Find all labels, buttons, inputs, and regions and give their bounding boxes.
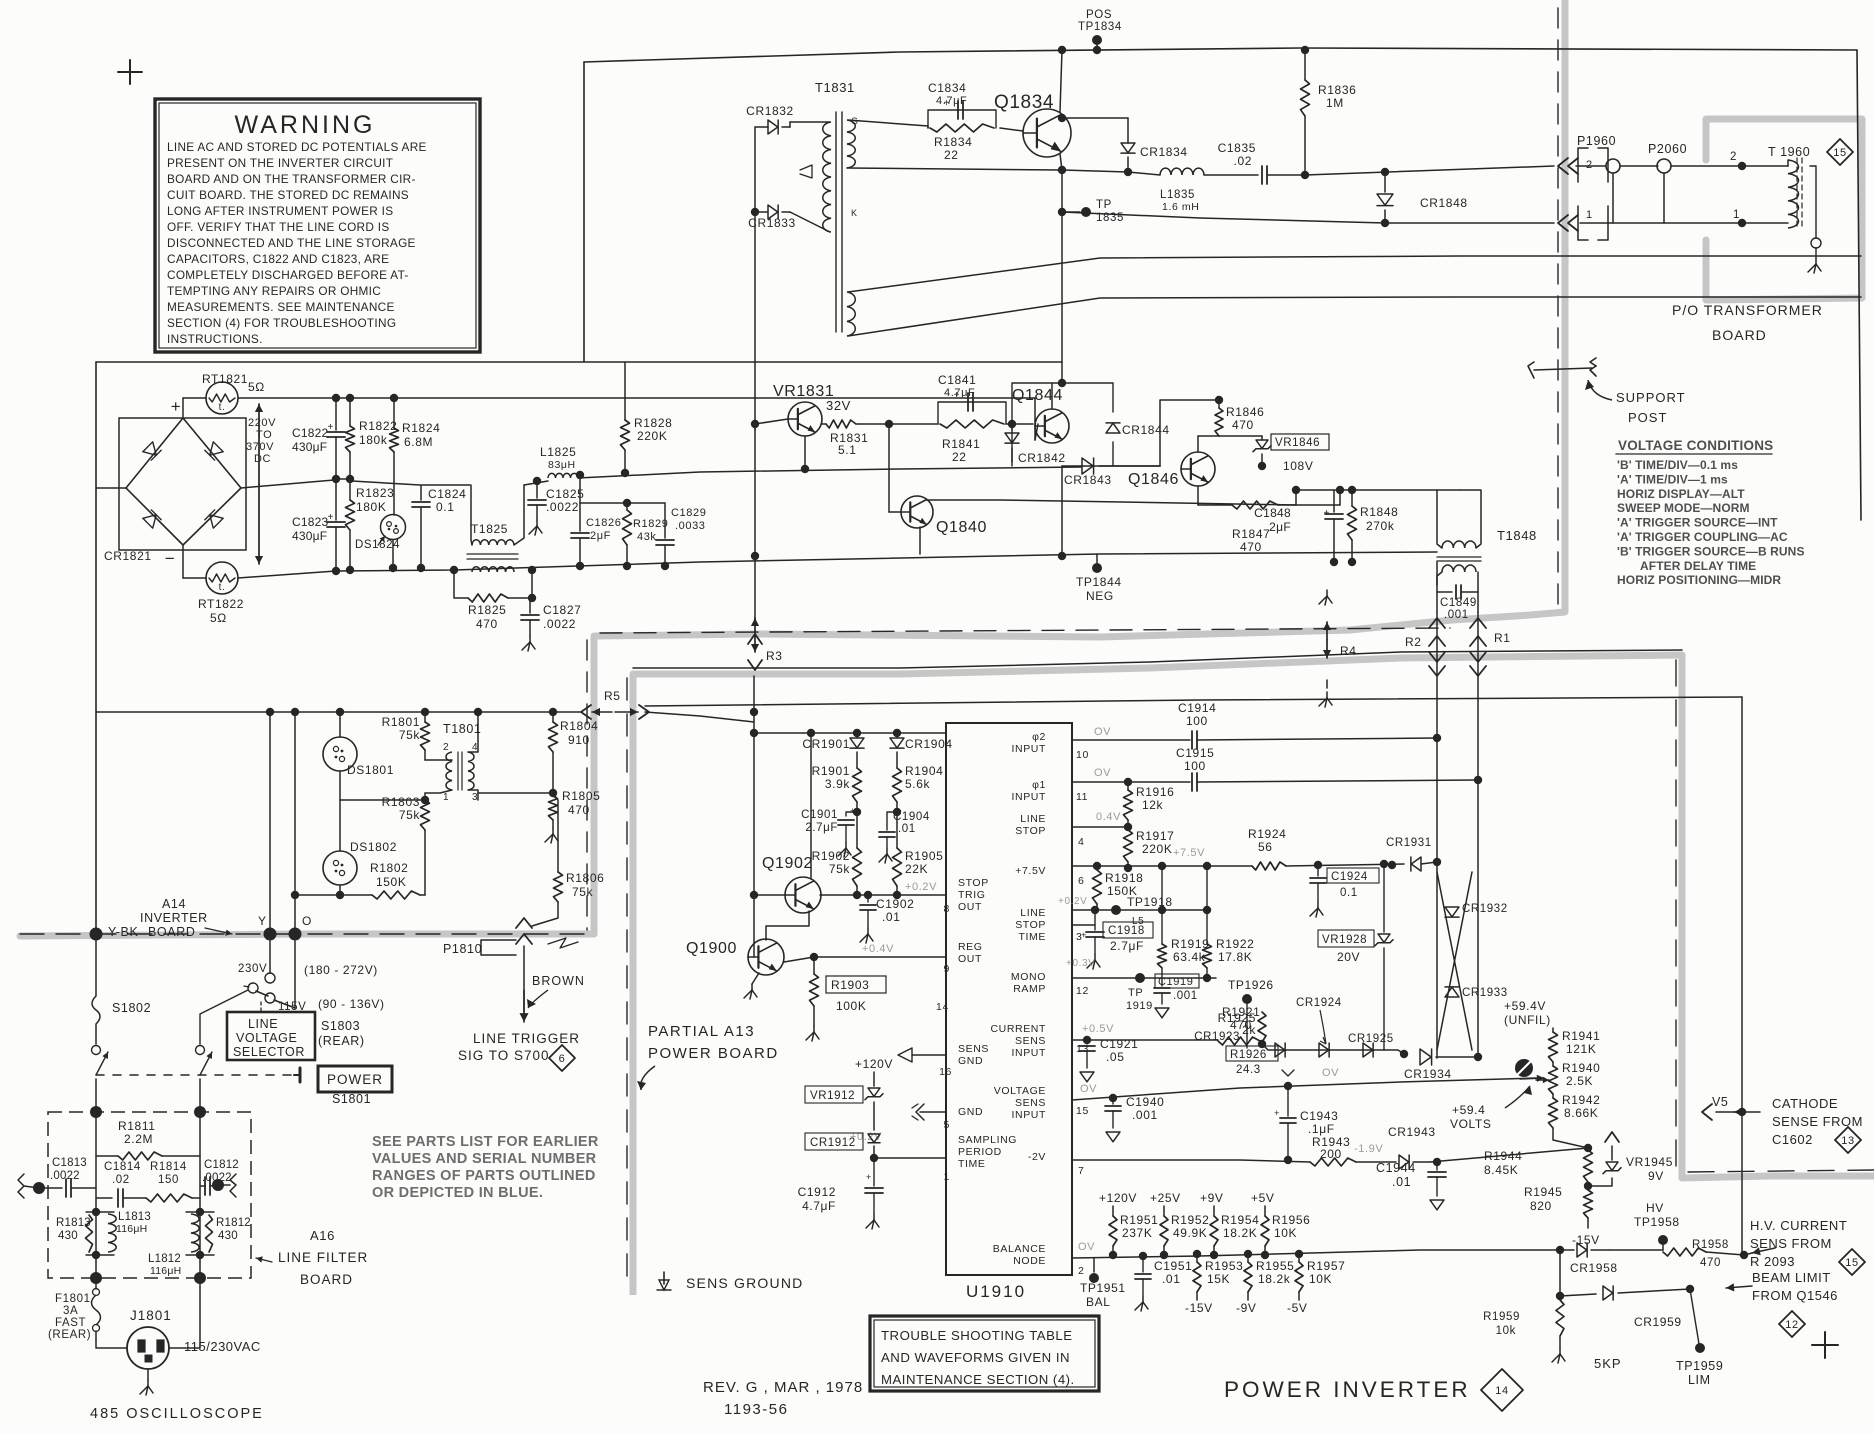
svg-text:BAL: BAL <box>1086 1295 1110 1309</box>
svg-text:OUT: OUT <box>958 901 982 913</box>
svg-text:CR1958: CR1958 <box>1570 1261 1618 1275</box>
svg-text:24.3: 24.3 <box>1236 1064 1261 1076</box>
svg-text:LINE AC AND STORED DC POTENTIA: LINE AC AND STORED DC POTENTIALS ARE <box>167 140 427 154</box>
svg-text:R1802: R1802 <box>370 861 408 875</box>
svg-text:BOARD: BOARD <box>148 925 195 939</box>
svg-text:2μF: 2μF <box>1269 520 1291 534</box>
svg-text:Q1840: Q1840 <box>936 519 987 536</box>
svg-text:F1801: F1801 <box>55 1293 91 1305</box>
svg-text:CR1934: CR1934 <box>1404 1067 1452 1081</box>
svg-text:OFF. VERIFY THAT THE LINE COR: OFF. VERIFY THAT THE LINE CORD IS <box>167 220 390 234</box>
svg-text:C1904: C1904 <box>893 811 930 823</box>
svg-text:5.1: 5.1 <box>838 443 856 457</box>
svg-text:SENS GROUND: SENS GROUND <box>686 1275 803 1291</box>
svg-text:COMPLETELY DISCHARGED BEFORE A: COMPLETELY DISCHARGED BEFORE AT- <box>167 268 409 282</box>
svg-text:-9V: -9V <box>1236 1301 1256 1315</box>
svg-text:R3: R3 <box>766 649 783 663</box>
svg-text:.001: .001 <box>1132 1108 1158 1122</box>
svg-text:R1801: R1801 <box>382 715 420 729</box>
svg-text:TROUBLE SHOOTING TABLE: TROUBLE SHOOTING TABLE <box>881 1328 1073 1343</box>
svg-text:R1841: R1841 <box>942 437 980 451</box>
svg-text:C1924: C1924 <box>1331 871 1368 883</box>
svg-text:0.1: 0.1 <box>436 500 454 514</box>
svg-text:150K: 150K <box>376 875 406 889</box>
svg-text:C1914: C1914 <box>1178 701 1216 715</box>
svg-text:VOLTAGE: VOLTAGE <box>994 1085 1046 1097</box>
svg-text:C1829: C1829 <box>671 507 706 519</box>
svg-text:VOLTAGE CONDITIONS: VOLTAGE CONDITIONS <box>1618 438 1773 453</box>
svg-text:+0.3V: +0.3V <box>1066 958 1095 969</box>
svg-text:R1944: R1944 <box>1484 1149 1522 1163</box>
svg-text:'B' TRIGGER SOURCE—B RUNS: 'B' TRIGGER SOURCE—B RUNS <box>1617 544 1805 558</box>
svg-text:+59.4V: +59.4V <box>1504 999 1546 1013</box>
svg-text:R1904: R1904 <box>905 764 943 778</box>
svg-text:T1801: T1801 <box>443 722 481 736</box>
svg-text:TP1951: TP1951 <box>1080 1281 1126 1295</box>
svg-text:POWER: POWER <box>327 1072 383 1087</box>
svg-text:470: 470 <box>1700 1257 1721 1269</box>
svg-text:MONO: MONO <box>1011 971 1046 983</box>
svg-text:CR1924: CR1924 <box>1296 997 1342 1009</box>
svg-text:10k: 10k <box>1496 1325 1516 1337</box>
svg-text:C1901: C1901 <box>801 809 838 821</box>
svg-text:83μH: 83μH <box>548 459 576 471</box>
svg-text:t.: t. <box>219 582 226 593</box>
svg-text:NODE: NODE <box>1013 1255 1046 1267</box>
svg-text:+7.5V: +7.5V <box>1173 847 1205 859</box>
svg-text:5Ω: 5Ω <box>248 380 265 394</box>
svg-text:Q1834: Q1834 <box>994 92 1054 113</box>
svg-text:220K: 220K <box>1142 842 1172 856</box>
svg-text:R1901: R1901 <box>812 764 850 778</box>
svg-text:AFTER DELAY TIME: AFTER DELAY TIME <box>1640 559 1756 573</box>
svg-text:220V: 220V <box>248 417 276 429</box>
svg-text:R1924: R1924 <box>1248 827 1286 841</box>
svg-text:430μF: 430μF <box>292 529 327 543</box>
svg-text:OV: OV <box>1078 1241 1095 1253</box>
svg-text:BOARD: BOARD <box>1712 327 1767 343</box>
svg-text:O: O <box>302 914 312 928</box>
svg-text:L1835: L1835 <box>1160 189 1195 201</box>
svg-text:.001: .001 <box>1444 609 1469 621</box>
svg-text:CR1932: CR1932 <box>1462 903 1508 915</box>
svg-text:.0033: .0033 <box>675 520 706 532</box>
svg-text:1: 1 <box>443 792 449 803</box>
svg-text:R1814: R1814 <box>150 1161 187 1173</box>
svg-text:(REAR): (REAR) <box>318 1034 365 1048</box>
svg-text:.0022: .0022 <box>50 1170 80 1182</box>
svg-text:OV: OV <box>1080 1083 1097 1095</box>
svg-text:1: 1 <box>944 1171 950 1183</box>
svg-text:R1829: R1829 <box>633 518 668 530</box>
svg-text:C1825: C1825 <box>546 487 584 501</box>
svg-text:R1917: R1917 <box>1136 829 1174 843</box>
svg-text:11: 11 <box>1076 791 1088 803</box>
svg-text:POST: POST <box>1628 410 1667 425</box>
svg-text:100: 100 <box>1186 714 1208 728</box>
svg-text:'B' TIME/DIV—0.1 ms: 'B' TIME/DIV—0.1 ms <box>1617 458 1738 472</box>
svg-text:10: 10 <box>1076 749 1089 761</box>
svg-text:MEASUREMENTS. SEE MAINTENANCE: MEASUREMENTS. SEE MAINTENANCE <box>167 300 395 314</box>
svg-text:VOLTAGE: VOLTAGE <box>236 1031 297 1045</box>
svg-text:1.6 mH: 1.6 mH <box>1162 201 1199 213</box>
svg-text:SECTION (4) FOR TROUBLESHOOTIN: SECTION (4) FOR TROUBLESHOOTING <box>167 316 396 330</box>
svg-text:1919: 1919 <box>1126 1000 1153 1012</box>
svg-text:T 1960: T 1960 <box>1768 145 1810 159</box>
svg-text:2: 2 <box>1730 151 1737 163</box>
svg-text:15: 15 <box>1845 1257 1858 1269</box>
svg-text:R4: R4 <box>1340 644 1357 658</box>
svg-text:CR1923: CR1923 <box>1194 1031 1240 1043</box>
svg-text:L1812: L1812 <box>148 1253 181 1265</box>
svg-text:REV. G , MAR , 1978: REV. G , MAR , 1978 <box>703 1379 863 1396</box>
svg-text:CR1844: CR1844 <box>1122 423 1170 437</box>
svg-text:+9V: +9V <box>1200 1191 1224 1205</box>
svg-text:12: 12 <box>1076 985 1089 997</box>
svg-text:1: 1 <box>1586 209 1593 221</box>
svg-text:VR1945: VR1945 <box>1626 1155 1673 1169</box>
svg-text:BOARD AND ON THE TRANSFORMER C: BOARD AND ON THE TRANSFORMER CIR- <box>167 172 416 186</box>
svg-text:POWER INVERTER: POWER INVERTER <box>1224 1377 1471 1402</box>
svg-text:Y: Y <box>258 914 267 928</box>
svg-text:OR DEPICTED IN BLUE.: OR DEPICTED IN BLUE. <box>372 1185 543 1201</box>
svg-text:RANGES OF PARTS OUTLINED: RANGES OF PARTS OUTLINED <box>372 1168 596 1184</box>
svg-text:1M: 1M <box>1326 96 1344 110</box>
svg-text:RT1822: RT1822 <box>198 597 244 611</box>
svg-text:TP1844: TP1844 <box>1076 575 1122 589</box>
svg-text:P/O TRANSFORMER: P/O TRANSFORMER <box>1672 302 1823 318</box>
svg-text:7: 7 <box>1078 1165 1084 1177</box>
svg-text:14: 14 <box>1495 1385 1508 1397</box>
svg-text:STOP: STOP <box>1015 825 1046 837</box>
svg-text:485 OSCILLOSCOPE: 485 OSCILLOSCOPE <box>90 1406 264 1422</box>
svg-text:R1812: R1812 <box>216 1217 251 1229</box>
svg-text:CUIT BOARD. THE STORED DC REMA: CUIT BOARD. THE STORED DC REMAINS <box>167 188 409 202</box>
svg-text:R1958: R1958 <box>1692 1239 1729 1251</box>
svg-text:180k: 180k <box>359 433 388 447</box>
svg-text:V5: V5 <box>1712 1095 1729 1109</box>
svg-text:.01: .01 <box>1162 1272 1180 1286</box>
svg-text:+5V: +5V <box>1251 1191 1275 1205</box>
svg-text:R1945: R1945 <box>1524 1185 1562 1199</box>
svg-text:470: 470 <box>1240 540 1262 554</box>
svg-text:3.9k: 3.9k <box>825 777 850 791</box>
svg-text:R1823: R1823 <box>356 486 394 500</box>
svg-text:470: 470 <box>568 803 590 817</box>
svg-text:TP1918: TP1918 <box>1127 895 1173 909</box>
svg-text:+0.2V: +0.2V <box>905 881 937 893</box>
svg-text:.02: .02 <box>112 1174 130 1186</box>
svg-text:INPUT: INPUT <box>1012 1109 1047 1121</box>
svg-text:RAMP: RAMP <box>1013 983 1046 995</box>
svg-text:TIME: TIME <box>958 1158 985 1170</box>
svg-text:TEMPTING ANY REPAIRS OR OHMIC: TEMPTING ANY REPAIRS OR OHMIC <box>167 284 381 298</box>
svg-text:1193-56: 1193-56 <box>724 1401 788 1418</box>
svg-text:C1918: C1918 <box>1108 925 1145 937</box>
svg-text:MAINTENANCE SECTION (4).: MAINTENANCE SECTION (4). <box>881 1372 1075 1387</box>
svg-text:WARNING: WARNING <box>235 111 376 139</box>
svg-text:R1828: R1828 <box>634 416 672 430</box>
svg-text:R1941: R1941 <box>1562 1029 1600 1043</box>
svg-text:C1835: C1835 <box>1218 141 1256 155</box>
svg-text:CATHODE: CATHODE <box>1772 1096 1838 1111</box>
svg-text:+7.5V: +7.5V <box>1015 865 1046 877</box>
svg-text:φ1: φ1 <box>1032 779 1046 791</box>
svg-text:J1801: J1801 <box>130 1308 172 1323</box>
svg-text:R1813: R1813 <box>56 1217 91 1229</box>
svg-text:+: + <box>328 422 334 433</box>
svg-text:+: + <box>850 806 856 816</box>
svg-text:14: 14 <box>936 1001 949 1013</box>
svg-text:+: + <box>1274 1108 1280 1118</box>
svg-text:R1942: R1942 <box>1562 1093 1600 1107</box>
svg-text:49.9K: 49.9K <box>1173 1226 1207 1240</box>
svg-text:L1825: L1825 <box>540 445 576 459</box>
svg-text:INPUT: INPUT <box>1012 791 1047 803</box>
svg-text:INPUT: INPUT <box>1012 1047 1047 1059</box>
svg-text:32V: 32V <box>826 398 851 413</box>
svg-text:+25V: +25V <box>1150 1191 1181 1205</box>
svg-text:C1902: C1902 <box>876 897 914 911</box>
svg-text:R 2093: R 2093 <box>1750 1254 1795 1269</box>
svg-text:C1943: C1943 <box>1300 1109 1338 1123</box>
svg-text:C1951: C1951 <box>1154 1259 1192 1273</box>
svg-text:P2060: P2060 <box>1648 142 1687 156</box>
svg-text:6: 6 <box>559 1053 566 1065</box>
svg-text:13: 13 <box>1841 1135 1854 1147</box>
svg-text:470: 470 <box>1232 418 1254 432</box>
svg-text:R1951: R1951 <box>1120 1213 1158 1227</box>
svg-text:2μF: 2μF <box>590 530 611 542</box>
svg-text:S1801: S1801 <box>332 1092 371 1106</box>
svg-text:9V: 9V <box>1648 1169 1664 1183</box>
svg-text:+: + <box>328 512 334 523</box>
svg-text:FAST: FAST <box>55 1317 86 1329</box>
svg-text:2.2M: 2.2M <box>124 1132 153 1146</box>
svg-text:910: 910 <box>568 733 590 747</box>
svg-text:20V: 20V <box>1337 950 1360 964</box>
svg-text:237K: 237K <box>1122 1226 1152 1240</box>
svg-text:REG: REG <box>958 941 983 953</box>
svg-text:(UNFIL): (UNFIL) <box>1504 1013 1551 1027</box>
svg-text:.02: .02 <box>1234 154 1252 168</box>
svg-text:10K: 10K <box>1309 1272 1332 1286</box>
svg-text:SENS FROM: SENS FROM <box>1750 1236 1832 1251</box>
svg-text:R1955: R1955 <box>1256 1259 1294 1273</box>
svg-text:-15V: -15V <box>1572 1233 1600 1247</box>
svg-text:15: 15 <box>1076 1105 1089 1117</box>
svg-text:820: 820 <box>1530 1199 1552 1213</box>
svg-text:+0.2V: +0.2V <box>1058 896 1087 907</box>
svg-text:P1960: P1960 <box>1577 134 1616 148</box>
svg-text:.01: .01 <box>898 823 916 835</box>
svg-text:430μF: 430μF <box>292 440 327 454</box>
svg-text:116μH: 116μH <box>116 1223 147 1235</box>
svg-text:HV: HV <box>1646 1201 1664 1215</box>
svg-text:R1825: R1825 <box>468 603 506 617</box>
svg-text:CR1931: CR1931 <box>1386 837 1432 849</box>
svg-text:R1806: R1806 <box>566 871 604 885</box>
svg-text:370V: 370V <box>246 441 274 453</box>
svg-text:SENS: SENS <box>958 1043 989 1055</box>
svg-text:8.45K: 8.45K <box>1484 1163 1518 1177</box>
svg-text:C1813: C1813 <box>52 1157 87 1169</box>
svg-text:-5V: -5V <box>1287 1301 1307 1315</box>
svg-text:TP1834: TP1834 <box>1078 21 1122 33</box>
svg-text:+0.5V: +0.5V <box>1082 1023 1114 1035</box>
svg-text:INVERTER: INVERTER <box>140 911 208 925</box>
svg-text:HORIZ POSITIONING—MIDR: HORIZ POSITIONING—MIDR <box>1617 573 1781 587</box>
svg-text:SUPPORT: SUPPORT <box>1616 390 1686 405</box>
svg-text:C1841: C1841 <box>938 373 976 387</box>
svg-text:C1834: C1834 <box>928 81 966 95</box>
svg-text:0.1: 0.1 <box>1340 887 1358 899</box>
svg-text:+: + <box>171 397 182 416</box>
svg-text:C1812: C1812 <box>204 1159 239 1171</box>
svg-text:TIME: TIME <box>1019 931 1046 943</box>
svg-text:A14: A14 <box>162 897 186 911</box>
svg-text:(90 - 136V): (90 - 136V) <box>318 997 385 1011</box>
svg-text:R1811: R1811 <box>118 1119 155 1133</box>
svg-text:T1831: T1831 <box>815 80 855 95</box>
svg-text:+: + <box>1324 508 1330 519</box>
svg-text:CR1832: CR1832 <box>746 104 794 118</box>
svg-text:R1: R1 <box>1494 631 1511 645</box>
svg-text:PRESENT ON THE INVERTER CIRCU: PRESENT ON THE INVERTER CIRCUIT <box>167 156 393 170</box>
svg-text:2k: 2k <box>1242 1023 1256 1037</box>
svg-text:LINE: LINE <box>1020 813 1046 825</box>
svg-text:CR1842: CR1842 <box>1018 451 1066 465</box>
svg-text:C1921: C1921 <box>1100 1037 1138 1051</box>
svg-text:-1.9V: -1.9V <box>1354 1143 1383 1155</box>
svg-text:LINE FILTER: LINE FILTER <box>278 1250 368 1265</box>
svg-text:C1915: C1915 <box>1176 746 1214 760</box>
svg-text:'A' TRIGGER SOURCE—INT: 'A' TRIGGER SOURCE—INT <box>1617 516 1778 530</box>
svg-text:POS: POS <box>1086 9 1112 21</box>
svg-text:Q1902: Q1902 <box>762 855 813 872</box>
svg-text:INPUT: INPUT <box>1012 743 1047 755</box>
svg-text:'A' TIME/DIV—1 ms: 'A' TIME/DIV—1 ms <box>1617 472 1728 486</box>
svg-text:R1902: R1902 <box>812 849 850 863</box>
svg-text:TRIG: TRIG <box>958 889 985 901</box>
svg-text:.01: .01 <box>1392 1175 1411 1189</box>
svg-text:DS1802: DS1802 <box>350 840 397 854</box>
svg-text:150: 150 <box>158 1174 179 1186</box>
svg-text:S1802: S1802 <box>112 1001 151 1015</box>
svg-text:R1926: R1926 <box>1230 1049 1267 1061</box>
svg-text:.0022: .0022 <box>546 500 579 514</box>
svg-text:R1836: R1836 <box>1318 83 1356 97</box>
svg-text:CR1959: CR1959 <box>1634 1315 1682 1329</box>
svg-text:22: 22 <box>944 148 959 162</box>
svg-text:5.6k: 5.6k <box>905 777 930 791</box>
svg-text:220K: 220K <box>637 429 667 443</box>
svg-text:VR1912: VR1912 <box>810 1090 855 1102</box>
svg-text:.0022: .0022 <box>202 1172 232 1184</box>
svg-text:Q1900: Q1900 <box>686 940 737 957</box>
svg-text:SEE PARTS LIST FOR EARLIER: SEE PARTS LIST FOR EARLIER <box>372 1134 599 1150</box>
svg-text:STOP: STOP <box>958 877 989 889</box>
svg-text:4.7μF: 4.7μF <box>802 1199 836 1213</box>
svg-text:R1905: R1905 <box>905 849 943 863</box>
svg-text:R1903: R1903 <box>831 978 869 992</box>
svg-text:(180 - 272V): (180 - 272V) <box>304 963 378 977</box>
svg-text:.01: .01 <box>882 910 900 924</box>
svg-text:75k: 75k <box>399 808 421 822</box>
svg-text:-15V: -15V <box>1185 1301 1213 1315</box>
svg-text:P1810: P1810 <box>443 942 482 956</box>
svg-text:R1822: R1822 <box>359 419 397 433</box>
svg-text:+59.4: +59.4 <box>1452 1103 1485 1117</box>
svg-text:C1912: C1912 <box>798 1185 836 1199</box>
svg-text:18.2K: 18.2K <box>1223 1226 1257 1240</box>
svg-text:270k: 270k <box>1366 519 1395 533</box>
svg-text:+: + <box>866 1172 872 1182</box>
svg-text:C1826: C1826 <box>586 517 621 529</box>
svg-text:116μH: 116μH <box>150 1265 181 1277</box>
svg-text:BROWN: BROWN <box>532 974 585 988</box>
svg-text:+: + <box>1081 930 1087 940</box>
svg-text:R1803: R1803 <box>382 795 420 809</box>
svg-text:CR1821: CR1821 <box>104 549 152 563</box>
svg-text:9: 9 <box>944 963 950 975</box>
svg-text:−: − <box>165 549 176 568</box>
svg-text:22: 22 <box>952 450 967 464</box>
svg-text:SAMPLING: SAMPLING <box>958 1134 1017 1146</box>
svg-text:-2V: -2V <box>1028 1151 1046 1163</box>
svg-text:4.7μF: 4.7μF <box>944 387 975 399</box>
svg-text:CURRENT: CURRENT <box>990 1023 1046 1035</box>
svg-text:56: 56 <box>1258 840 1273 854</box>
svg-text:'A' TRIGGER COUPLING—AC: 'A' TRIGGER COUPLING—AC <box>1617 530 1788 544</box>
svg-text:H.V. CURRENT: H.V. CURRENT <box>1750 1218 1847 1233</box>
svg-text:CR1901: CR1901 <box>802 737 850 751</box>
svg-text:75k: 75k <box>572 885 594 899</box>
svg-text:C1814: C1814 <box>104 1161 141 1173</box>
svg-text:430: 430 <box>58 1230 78 1242</box>
svg-text:C1822: C1822 <box>292 426 328 440</box>
svg-text:2.5K: 2.5K <box>1566 1074 1593 1088</box>
svg-text:A16: A16 <box>310 1228 335 1243</box>
svg-text:R1916: R1916 <box>1136 785 1174 799</box>
svg-text:R1848: R1848 <box>1360 505 1398 519</box>
svg-text:3A: 3A <box>63 1305 78 1317</box>
svg-text:121K: 121K <box>1566 1042 1596 1056</box>
svg-text:CR1925: CR1925 <box>1348 1033 1394 1045</box>
svg-text:2: 2 <box>1078 1265 1084 1277</box>
svg-text:BOARD: BOARD <box>300 1272 353 1287</box>
svg-text:FROM Q1546: FROM Q1546 <box>1752 1288 1838 1303</box>
svg-text:+0.4V: +0.4V <box>862 943 894 955</box>
svg-text:BALANCE: BALANCE <box>993 1243 1046 1255</box>
svg-text:.1μF: .1μF <box>1308 1122 1335 1136</box>
svg-text:5KP: 5KP <box>1594 1356 1622 1371</box>
svg-text:R1804: R1804 <box>560 719 598 733</box>
svg-text:S1803: S1803 <box>321 1019 360 1033</box>
svg-text:2.7μF: 2.7μF <box>1110 939 1144 953</box>
svg-text:T1825: T1825 <box>471 522 508 536</box>
svg-text:GND: GND <box>958 1106 983 1118</box>
svg-text:SELECTOR: SELECTOR <box>233 1045 305 1059</box>
svg-text:R1953: R1953 <box>1205 1259 1243 1273</box>
svg-text:R1918: R1918 <box>1105 871 1143 885</box>
svg-text:OV: OV <box>1094 767 1111 779</box>
svg-text:C1602: C1602 <box>1772 1132 1813 1147</box>
svg-text:180K: 180K <box>356 500 386 514</box>
svg-text:R1940: R1940 <box>1562 1061 1600 1075</box>
svg-text:T1848: T1848 <box>1497 528 1537 543</box>
svg-text:U1910: U1910 <box>966 1282 1026 1301</box>
